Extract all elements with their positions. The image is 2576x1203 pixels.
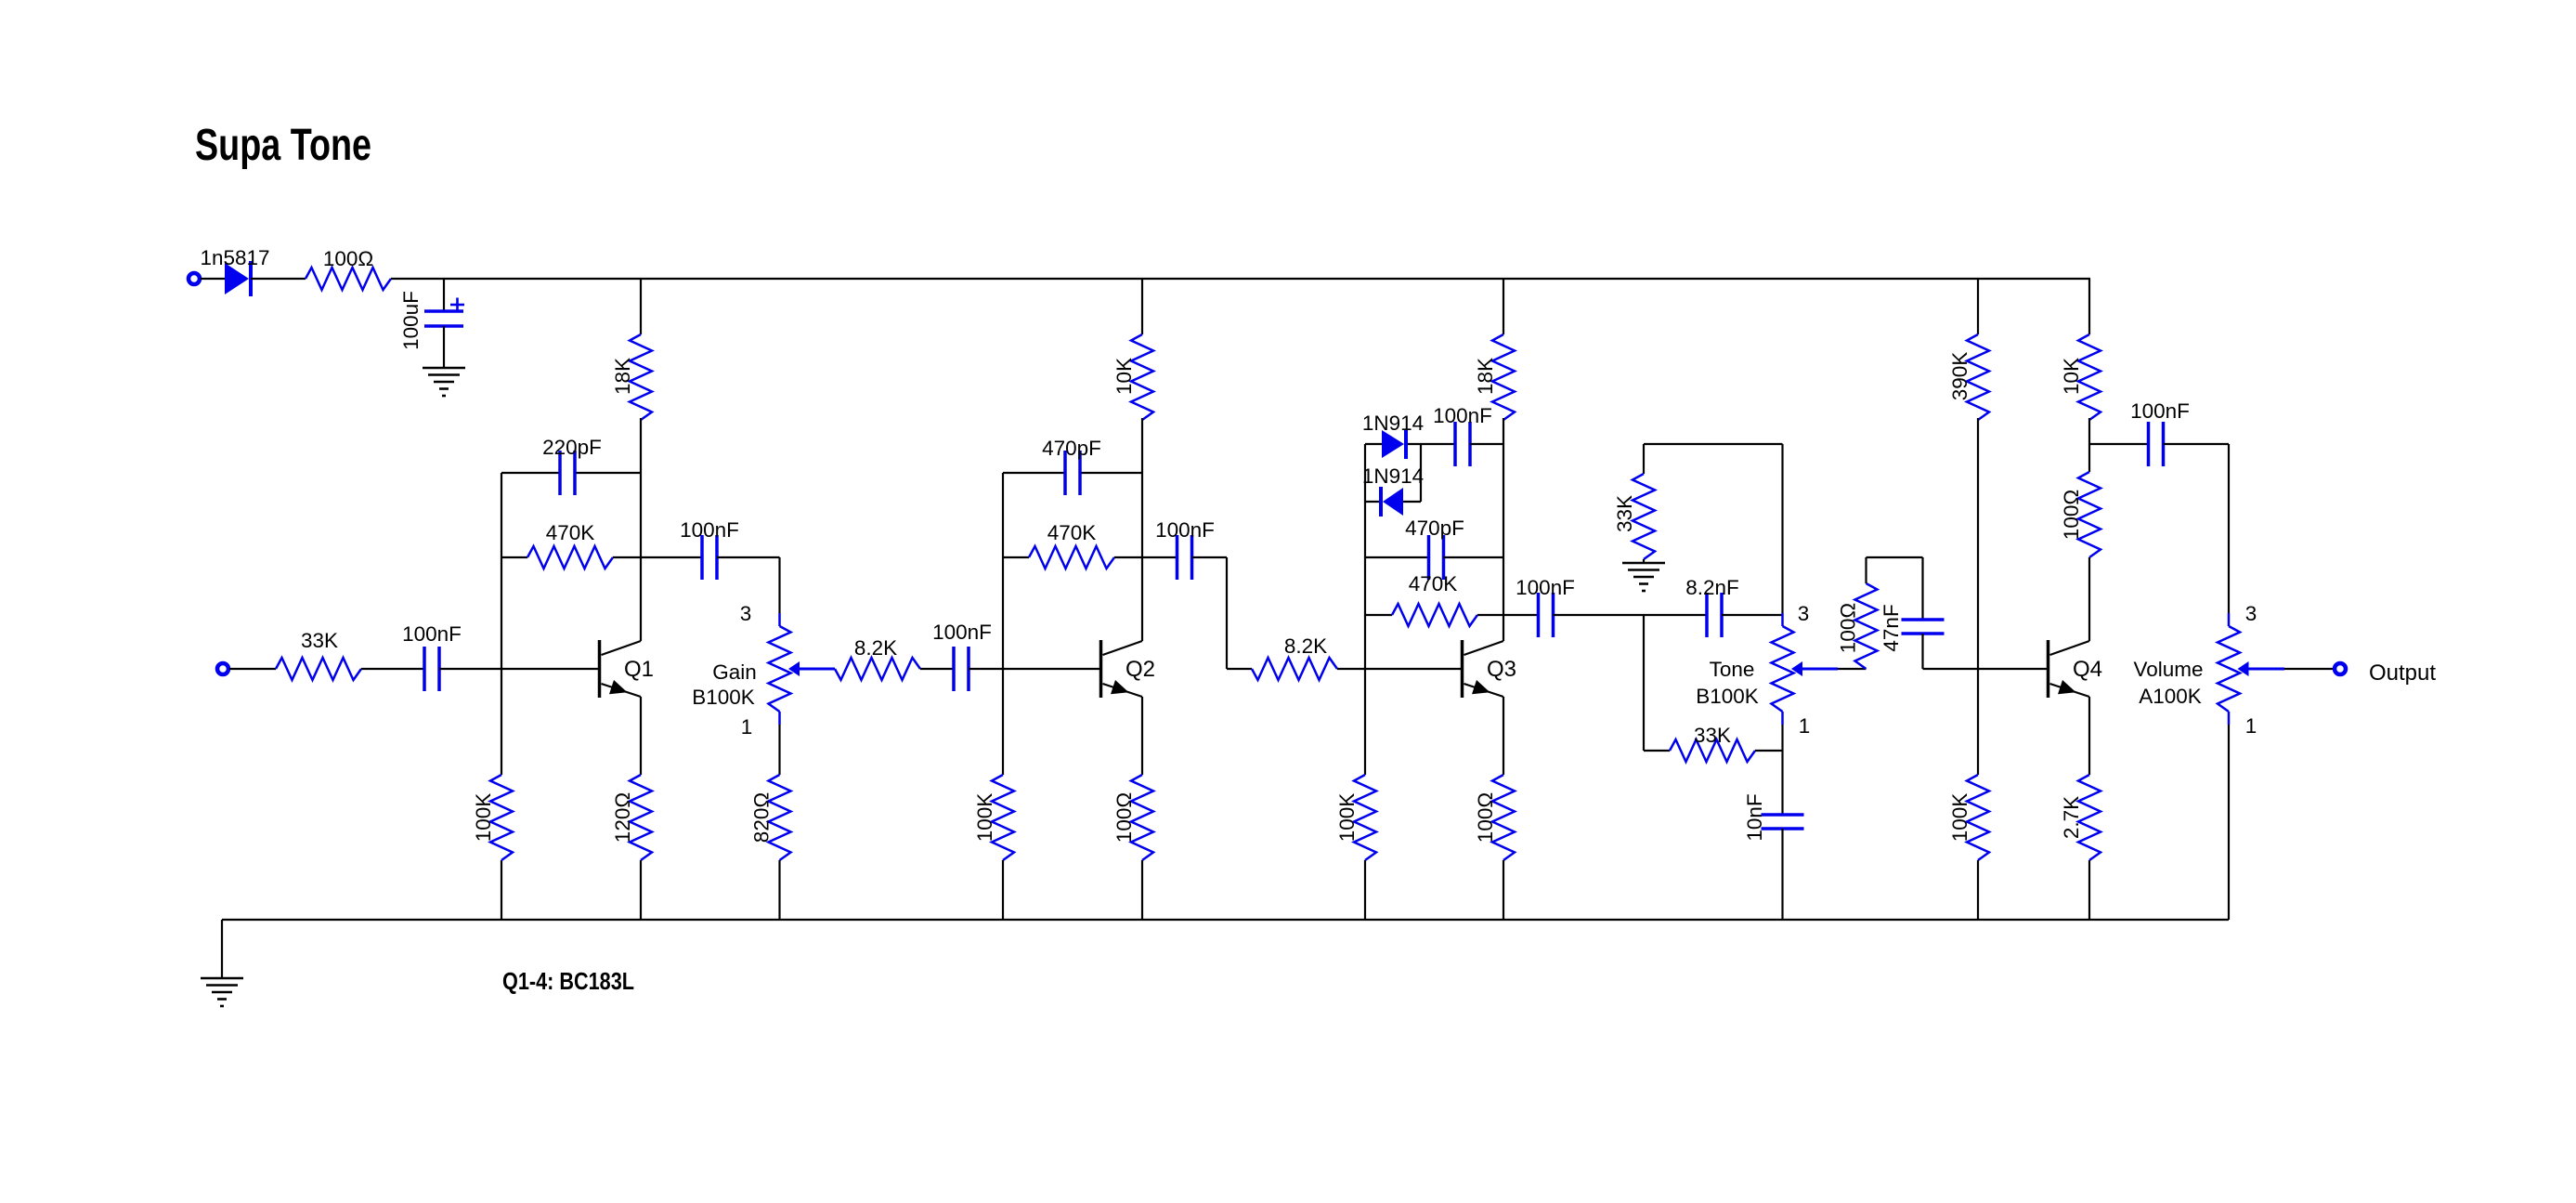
svg-text:820Ω: 820Ω	[750, 792, 774, 843]
svg-text:3: 3	[2245, 602, 2257, 625]
svg-text:100K: 100K	[1335, 793, 1359, 843]
svg-text:100K: 100K	[472, 793, 495, 843]
svg-text:470K: 470K	[1047, 521, 1097, 544]
svg-text:8.2K: 8.2K	[1284, 634, 1327, 658]
svg-text:100nF: 100nF	[1155, 518, 1215, 542]
svg-text:1N914: 1N914	[1362, 412, 1424, 435]
svg-text:Q1-4: BC183L: Q1-4: BC183L	[502, 967, 634, 995]
svg-text:100nF: 100nF	[932, 621, 992, 644]
svg-text:100K: 100K	[973, 793, 996, 843]
svg-text:1: 1	[741, 715, 753, 739]
svg-text:470pF: 470pF	[1042, 437, 1101, 460]
svg-text:100Ω: 100Ω	[2060, 490, 2083, 540]
svg-text:1: 1	[1799, 714, 1811, 738]
svg-text:100Ω: 100Ω	[1112, 792, 1136, 843]
svg-text:Tone: Tone	[1710, 658, 1755, 681]
svg-text:100Ω: 100Ω	[1474, 792, 1497, 843]
svg-text:Q1: Q1	[624, 657, 654, 682]
svg-text:100K: 100K	[1948, 793, 1971, 843]
svg-text:10K: 10K	[1112, 358, 1136, 395]
svg-text:33K: 33K	[1694, 724, 1731, 747]
svg-text:A100K: A100K	[2139, 685, 2202, 708]
svg-text:10nF: 10nF	[1743, 793, 1766, 841]
svg-text:470K: 470K	[546, 521, 595, 544]
svg-text:390K: 390K	[1948, 352, 1971, 401]
svg-text:100Ω: 100Ω	[323, 247, 373, 270]
svg-text:47nF: 47nF	[1880, 604, 1903, 651]
svg-text:Supa Tone: Supa Tone	[195, 121, 371, 170]
svg-text:Q2: Q2	[1125, 657, 1155, 682]
svg-text:Q3: Q3	[1487, 657, 1516, 682]
svg-text:470pF: 470pF	[1405, 517, 1464, 540]
svg-text:470K: 470K	[1409, 572, 1458, 595]
svg-text:100nF: 100nF	[680, 518, 739, 542]
svg-text:18K: 18K	[611, 358, 634, 395]
svg-text:33K: 33K	[301, 629, 338, 652]
svg-text:1: 1	[2245, 714, 2257, 738]
svg-text:18K: 18K	[1474, 358, 1497, 395]
svg-text:Gain: Gain	[712, 660, 757, 684]
svg-text:Volume: Volume	[2133, 658, 2203, 681]
svg-text:B100K: B100K	[692, 686, 755, 709]
svg-text:10K: 10K	[2060, 358, 2083, 395]
svg-text:3: 3	[740, 602, 752, 625]
svg-text:100nF: 100nF	[1433, 404, 1492, 427]
svg-text:8.2K: 8.2K	[854, 636, 897, 660]
svg-text:Output: Output	[2369, 660, 2436, 686]
svg-text:B100K: B100K	[1696, 685, 1759, 708]
svg-text:100uF: 100uF	[399, 291, 423, 350]
svg-text:100nF: 100nF	[1516, 576, 1575, 599]
svg-text:3: 3	[1798, 602, 1810, 625]
svg-text:1N914: 1N914	[1362, 464, 1424, 488]
svg-text:120Ω: 120Ω	[611, 792, 634, 843]
svg-text:1n5817: 1n5817	[200, 246, 269, 269]
svg-text:Q4: Q4	[2073, 657, 2102, 682]
svg-text:220pF: 220pF	[542, 436, 602, 459]
svg-text:8.2nF: 8.2nF	[1685, 576, 1739, 599]
svg-text:2.7K: 2.7K	[2060, 796, 2083, 839]
svg-text:33K: 33K	[1613, 495, 1636, 532]
svg-text:100nF: 100nF	[402, 622, 462, 646]
svg-text:100Ω: 100Ω	[1837, 603, 1860, 653]
svg-text:100nF: 100nF	[2130, 399, 2190, 423]
